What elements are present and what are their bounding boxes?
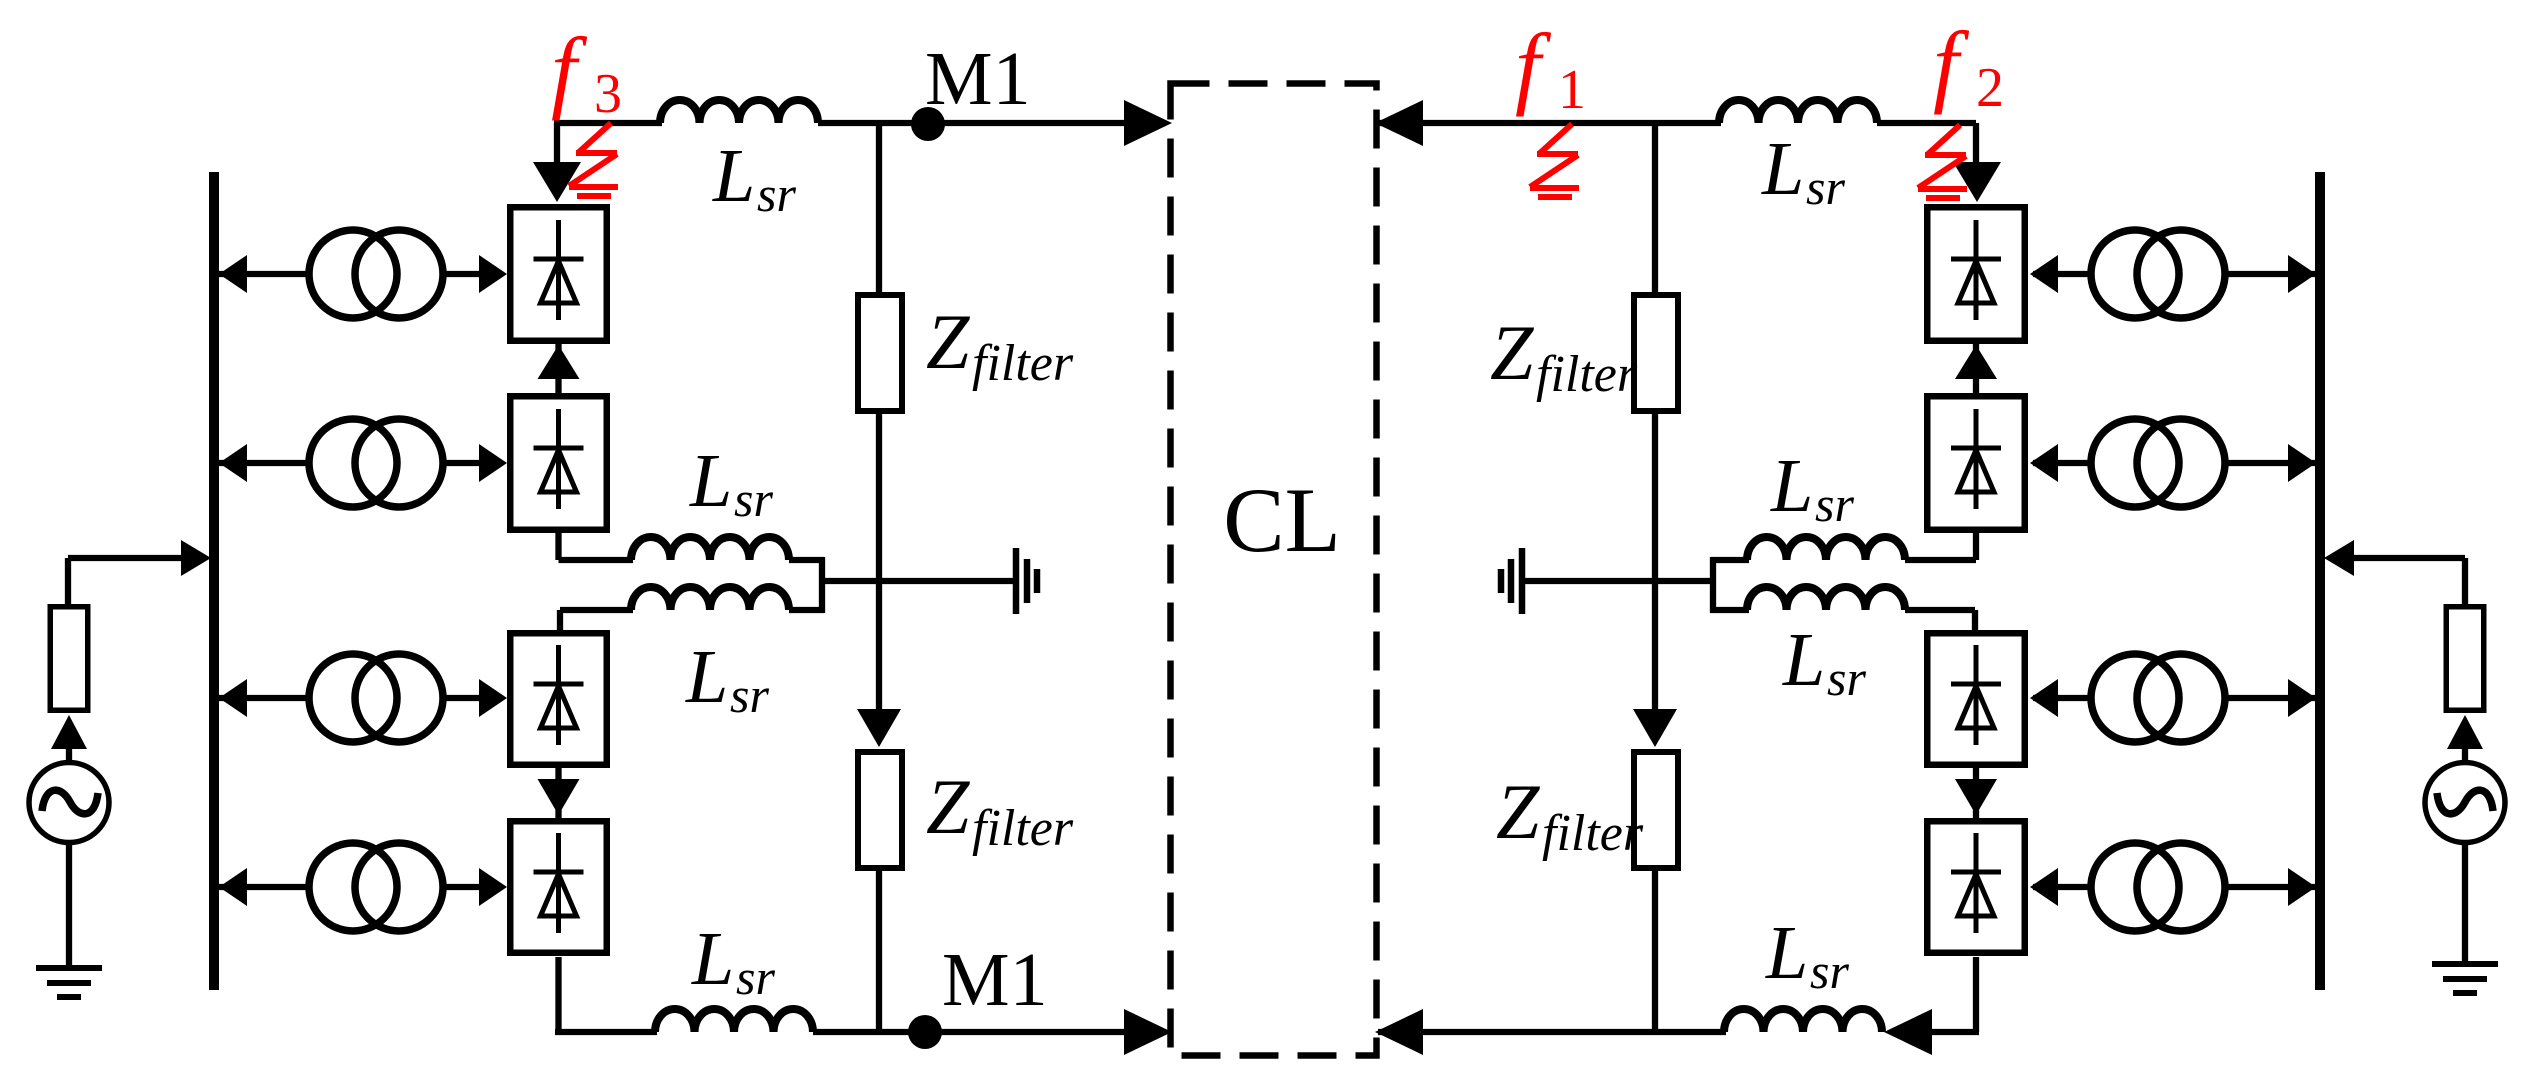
wire transformer T3 to converter U3 [441,695,502,701]
wire transformer T7 to bus (right) [2223,695,2320,701]
Zfilter (top left) [858,295,902,411]
wire converter U5 to transformer T5 [2033,271,2093,277]
neutral ground (left) [1013,548,1020,614]
svg-text:L: L [685,635,728,719]
transformer T3 (two winding) [309,654,397,742]
converter U8 (thyristor valve, right) [1927,821,2025,953]
svg-text:filter: filter [1536,346,1638,403]
right AC bus bar [2315,172,2325,990]
wire converter U8 to transformer T8 [2033,884,2093,890]
wire converter U7 to transformer T7 [2033,695,2093,701]
transformer T1 (two winding) [309,230,397,318]
arrow down into U1 [533,162,581,202]
wire transformer T1 to converter U1 [441,271,502,277]
wire U8 bottom to bottom pole (right) [1973,957,1979,1032]
left AC bus bar [209,172,219,990]
svg-text:3: 3 [594,63,622,125]
svg-text:sr: sr [1815,476,1854,532]
ground (left AC source) [36,965,102,971]
arrow into bus at row 1 (right) [2288,255,2316,293]
converter U1 (thyristor valve) [510,207,607,341]
top DC pole line (left) [554,120,662,126]
smoothing reactor Lsr (top right) [1719,100,1877,123]
smoothing reactor Lsr (top left) [660,100,818,123]
wire bus to transformer T3 [214,695,312,701]
wire bus to transformer T2 [214,460,312,466]
svg-text:sr: sr [757,166,796,222]
svg-text:1: 1 [1558,59,1586,121]
arrow U2 to U1 (upward) [555,344,561,393]
svg-text:L: L [689,439,732,523]
svg-text:sr: sr [736,949,775,1005]
arrow into right bus from AC source [2324,540,2354,576]
svg-text:sr: sr [1810,943,1849,999]
arrow U7 to U8 (downward, right) [1973,768,1979,818]
wire U6 bottom to neutral reactor (right) [1711,557,1749,563]
smoothing reactor Lsr (mid lower right) [1747,587,1905,610]
bottom DC pole line (left) [555,1029,657,1035]
arrow into bus at row 3 (left) [219,679,247,717]
converter U3 (thyristor valve) [510,633,607,765]
wire Zfilter to neutral cross (left) [876,414,882,711]
converter U7 (thyristor valve, right) [1927,633,2025,765]
arrow up into right source impedance [2447,715,2483,749]
arrow up into left source impedance [51,715,87,749]
arrow down to Zfilter 2 (right) [1633,709,1677,747]
wire Zfilter2 to bottom pole (right) [1652,871,1658,1032]
arrow into converter U7 [2030,679,2058,717]
AC source G2 (right) [2425,763,2505,843]
fault symbol f1 [1530,124,1579,197]
wire bus to transformer T1 [214,271,312,277]
svg-text:2: 2 [1976,57,2004,119]
wire transformer T5 to bus (right) [2223,271,2320,277]
arrow into CL (top right) [1375,100,1423,146]
smoothing reactor Lsr (mid upper left) [631,537,789,560]
svg-text:Z: Z [1496,768,1541,855]
wire converter U6 to transformer T6 [2033,460,2093,466]
wire U3 top to neutral reactor (left) [557,610,563,632]
svg-text:Z: Z [926,298,971,385]
arrow down to Zfilter 2 (left) [857,709,901,747]
wire pole to Zfilter (top right) [1652,123,1658,294]
wire transformer T8 to bus (right) [2223,884,2320,890]
arrow into bus at row 1 (left) [219,255,247,293]
svg-text:sr: sr [1806,159,1845,215]
arrow into bus at row 4 (right) [2288,868,2316,906]
wire Zfilter to neutral cross (right) [1652,414,1658,711]
svg-text:L: L [1761,127,1804,211]
left source impedance resistor [50,607,88,711]
arrow into CL (top left) [1124,100,1172,146]
neutral junction bar (right) [1710,557,1716,613]
svg-text:Z: Z [926,763,971,850]
arrow into converter U1 [479,255,507,293]
converter U5 (thyristor valve, right) [1927,207,2025,341]
arrow toward reactor (bottom right) [1884,1009,1932,1055]
transformer T5 (two winding) [2091,230,2179,318]
wire transformer T4 to converter U4 [441,884,502,890]
wire transformer T6 to bus (right) [2223,460,2320,466]
arrow into bus at row 2 (left) [219,444,247,482]
svg-text:sr: sr [1827,650,1866,706]
measuring point M1 (bottom) [908,1015,942,1049]
svg-text:filter: filter [972,800,1074,857]
right AC source wire to bus [2348,555,2465,561]
arrow U3 to U4 (downward) [555,768,561,818]
svg-text:Z: Z [1490,309,1535,396]
Zfilter (top right) [1634,295,1678,411]
transformer T8 (two winding) [2091,843,2179,931]
wire U2 bottom to neutral reactor (left) [555,533,561,560]
arrow into converter U5 [2030,255,2058,293]
arrow into converter U8 [2030,868,2058,906]
fault symbol f2 [1918,125,1967,198]
svg-text:L: L [712,134,755,218]
neutral line to ground (right) [1522,578,1713,584]
top DC pole line (right) [1378,120,1721,126]
transformer T6 (two winding) [2091,419,2179,507]
wire U1 top to DC pole line (left) [554,123,560,162]
ground (right AC source) [2432,961,2498,967]
arrow into bus at row 4 (left) [219,868,247,906]
svg-text:f: f [1515,15,1552,117]
neutral ground (right) [1519,548,1526,614]
contact line CL (dashed box) [1171,84,1377,1056]
wire pole to Zfilter (top left) [876,123,882,294]
wire bus to transformer T4 [214,884,312,890]
wire AC source to ground (right) [2462,842,2468,964]
wire to U1 top (right) [1973,123,1979,162]
neutral line to ground (left) [822,578,1016,584]
svg-text:sr: sr [730,667,769,723]
svg-text:CL: CL [1223,469,1341,571]
wire U4 bottom to bottom pole (left) [555,957,561,1032]
svg-text:L: L [1782,618,1825,702]
svg-text:filter: filter [972,335,1074,392]
svg-text:L: L [1765,911,1808,995]
smoothing reactor Lsr (mid lower left) [631,587,789,610]
wire U7 top to neutral reactor (right) [1711,607,1749,613]
right source impedance resistor [2446,607,2484,711]
arrow into left bus from AC source [181,540,211,576]
left AC source wire to bus [68,555,188,561]
transformer T7 (two winding) [2091,654,2179,742]
arrow into converter U4 [479,868,507,906]
wire Zfilter2 to bottom pole (left) [876,871,882,1032]
svg-text:M1: M1 [942,938,1048,1022]
arrow into converter U2 [479,444,507,482]
arrow down into U1 (right) [1953,162,2001,202]
arrow into converter U6 [2030,444,2058,482]
smoothing reactor Lsr (bottom left) [655,1009,813,1032]
arrow into CL (bottom left) [1124,1009,1172,1055]
neutral junction bar (left) [819,557,825,613]
Zfilter (bottom left) [858,752,902,868]
converter U6 (thyristor valve, right) [1927,396,2025,530]
svg-text:filter: filter [1542,805,1644,862]
svg-text:f: f [1933,13,1970,115]
converter U4 (thyristor valve) [510,821,607,953]
svg-text:M1: M1 [925,37,1031,121]
transformer T4 (two winding) [309,843,397,931]
measuring point M1 (top) [911,107,945,141]
arrow U6 to U5 (upward, right) [1973,344,1979,393]
smoothing reactor Lsr (bottom right) [1724,1009,1882,1032]
arrow into bus at row 3 (right) [2288,679,2316,717]
svg-text:sr: sr [734,471,773,527]
svg-text:L: L [1770,444,1813,528]
wire transformer T2 to converter U2 [441,460,502,466]
arrow into CL (bottom right) [1375,1009,1423,1055]
wire AC source to ground (left) [66,842,72,968]
arrow into converter U3 [479,679,507,717]
Zfilter (bottom right) [1634,752,1678,868]
svg-text:L: L [691,917,734,1001]
fault symbol f3 [569,123,618,196]
AC source G1 (left) [29,763,109,843]
bottom DC pole line (right) [1378,1029,1726,1035]
converter U2 (thyristor valve) [510,396,607,530]
smoothing reactor Lsr (mid upper right) [1747,537,1905,560]
arrow into bus at row 2 (right) [2288,444,2316,482]
svg-text:f: f [551,19,588,121]
transformer T2 (two winding) [309,419,397,507]
